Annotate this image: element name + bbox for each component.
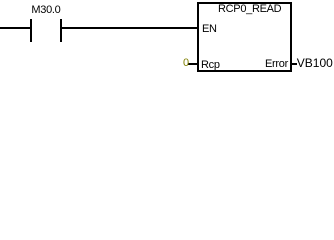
operand VB100 on Error output [297, 58, 333, 69]
wire Rcp input stub [188, 63, 197, 65]
wire left rail segment [0, 27, 30, 29]
wire Error output stub [292, 63, 297, 65]
contact M30.0 right bar [60, 19, 62, 42]
constant 0 on Rcp input [183, 58, 189, 69]
pin Error label [265, 59, 288, 70]
pin EN label [202, 24, 217, 35]
block title RCP0_READ [218, 4, 281, 15]
contact M30.0 label [31, 5, 60, 16]
contact M30.0 left bar [30, 19, 32, 42]
function block U1 RCP0_READ box [197, 2, 292, 72]
pin Rcp label [201, 60, 220, 71]
wire contact to block EN [62, 27, 197, 29]
